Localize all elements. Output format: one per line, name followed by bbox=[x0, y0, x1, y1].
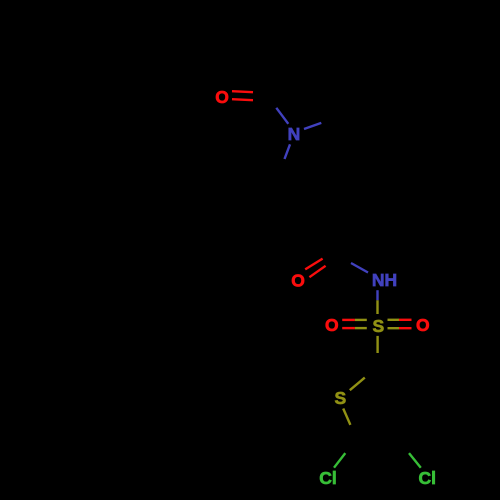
svg-text:NH: NH bbox=[372, 270, 397, 290]
svg-text:O: O bbox=[291, 271, 305, 291]
svg-text:S: S bbox=[372, 316, 384, 336]
svg-text:S: S bbox=[334, 388, 346, 408]
svg-text:N: N bbox=[288, 124, 301, 144]
svg-text:O: O bbox=[325, 315, 339, 335]
svg-text:O: O bbox=[215, 87, 229, 107]
svg-text:Cl: Cl bbox=[319, 468, 337, 488]
svg-text:Cl: Cl bbox=[419, 468, 437, 488]
svg-text:O: O bbox=[416, 315, 430, 335]
